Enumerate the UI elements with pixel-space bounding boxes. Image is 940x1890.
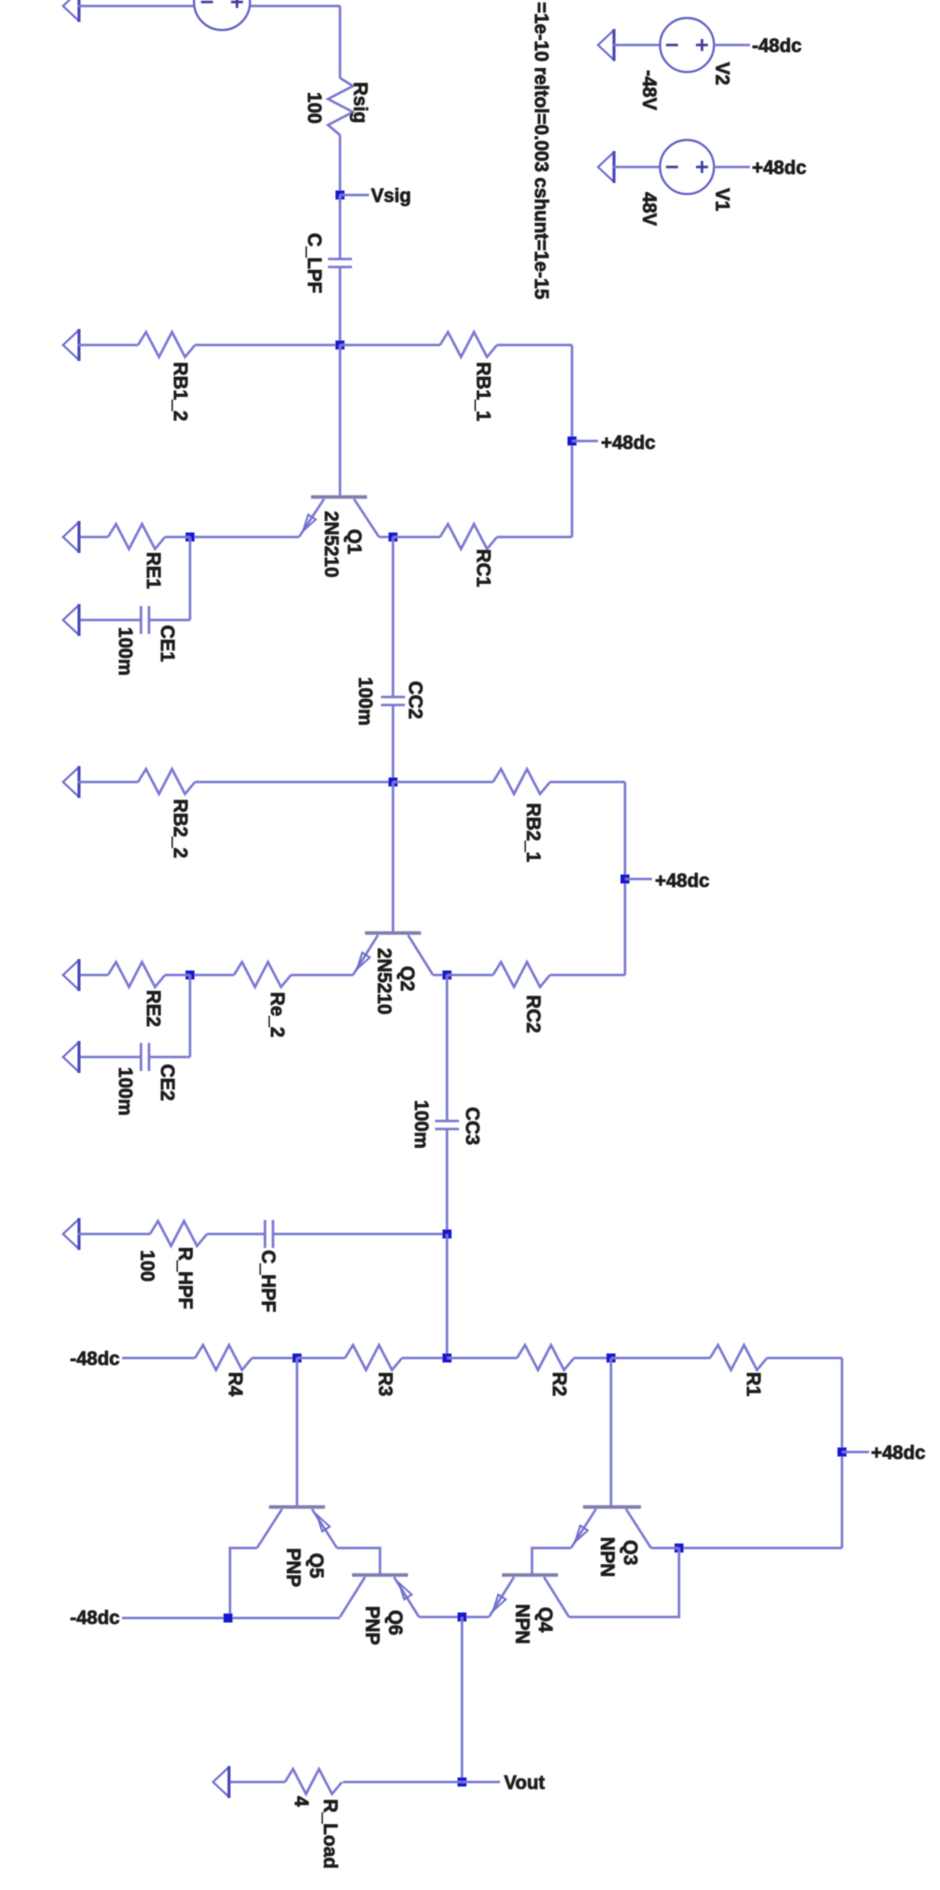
- node Vout: [458, 1778, 467, 1787]
- svg-text:Q3: Q3: [619, 1540, 640, 1565]
- svg-text:R_Load: R_Load: [319, 1799, 340, 1869]
- resistor R3: [345, 1345, 402, 1370]
- wire: [651, 1547, 679, 1550]
- wire: [190, 974, 234, 977]
- wire (Q1 base): [339, 345, 342, 497]
- svg-text:100m: 100m: [410, 1100, 431, 1149]
- wire: [446, 1129, 449, 1234]
- wire (Q2 base): [392, 782, 395, 933]
- svg-text:NPN: NPN: [511, 1604, 532, 1644]
- voltage source Vsrc (clipped at top): [194, 0, 250, 30]
- transistor Q3: [583, 1505, 641, 1508]
- wire: [339, 6, 342, 78]
- wire: [841, 1358, 844, 1548]
- wire: [195, 344, 340, 347]
- wire: [78, 619, 141, 622]
- wire: [297, 1357, 345, 1360]
- wire: [446, 975, 449, 1121]
- svg-text:C_HPF: C_HPF: [257, 1250, 278, 1312]
- ground (RE2): [63, 960, 79, 990]
- wire: [571, 345, 574, 537]
- wire: [273, 1233, 447, 1236]
- transistor Q4: [502, 1573, 558, 1576]
- svg-text:RB1_2: RB1_2: [169, 362, 190, 421]
- svg-text:Vsig: Vsig: [371, 186, 411, 207]
- wire: [679, 1547, 842, 1550]
- svg-text:48V: 48V: [638, 192, 659, 226]
- svg-text:R2: R2: [548, 1372, 569, 1396]
- wire: [392, 705, 395, 782]
- svg-text:RC2: RC2: [522, 995, 543, 1033]
- wire: [78, 974, 108, 977]
- wire (Q3 base): [610, 1358, 613, 1507]
- wire: [402, 1357, 447, 1360]
- wire: [122, 1357, 195, 1360]
- wire (Q3 emitter to Q4 base): [532, 1548, 571, 1575]
- wire: [393, 536, 440, 539]
- node Q5 collector rail: [224, 1614, 233, 1623]
- wire: [78, 536, 108, 539]
- svg-text:Q2: Q2: [396, 966, 417, 991]
- wire: [122, 1617, 340, 1620]
- wire: [207, 1233, 265, 1236]
- capacitor C_LPF: [328, 258, 352, 261]
- transistor Q1: [311, 495, 367, 498]
- svg-text:100: 100: [303, 92, 324, 124]
- wire: [613, 166, 660, 169]
- wire: [550, 974, 625, 977]
- svg-text:=1e-10 reltol=0.003 cshunt=1e-: =1e-10 reltol=0.003 cshunt=1e-15: [530, 2, 551, 300]
- svg-text:CC2: CC2: [404, 681, 425, 719]
- ground (RB2_2): [63, 767, 79, 797]
- capacitor C_HPF: [264, 1220, 267, 1248]
- wire: [78, 1056, 141, 1059]
- node +48dc rail 3: [838, 1448, 847, 1457]
- wire: [714, 166, 750, 169]
- svg-text:+48dc: +48dc: [871, 1443, 926, 1464]
- wire: [611, 1357, 710, 1360]
- svg-text:R_HPF: R_HPF: [174, 1247, 195, 1309]
- wire: [497, 536, 572, 539]
- resistor RB1_2: [138, 332, 195, 357]
- svg-text:+48dc: +48dc: [752, 158, 807, 179]
- svg-text:Q5: Q5: [305, 1553, 326, 1579]
- svg-text:-48V: -48V: [638, 70, 659, 110]
- wire: [78, 781, 138, 784]
- voltage source V2: [660, 18, 714, 72]
- node HPF: [443, 1230, 452, 1239]
- resistor RE2: [108, 962, 165, 987]
- svg-text:Vout: Vout: [504, 1773, 545, 1794]
- wire (Q4 collector): [569, 1548, 679, 1617]
- resistor Re_2: [234, 962, 291, 987]
- wire: [393, 781, 493, 784]
- node mid: [443, 1354, 452, 1363]
- transistor Q2: [365, 931, 421, 934]
- wire: [461, 1617, 464, 1782]
- transistor Q5: [269, 1505, 325, 1508]
- svg-text:4: 4: [290, 1796, 311, 1807]
- svg-text:RC1: RC1: [472, 549, 493, 587]
- capacitor CE1: [140, 606, 143, 634]
- wire (Q5 base): [296, 1358, 299, 1507]
- wire: [447, 1357, 517, 1360]
- voltage source V1: [660, 140, 714, 194]
- svg-text:R4: R4: [224, 1372, 245, 1397]
- resistor RC1: [440, 524, 497, 549]
- wire: [195, 781, 393, 784]
- node base1: [336, 341, 345, 350]
- wire: [339, 135, 342, 195]
- svg-text:CC3: CC3: [461, 1107, 482, 1145]
- wire: [340, 344, 440, 347]
- svg-text:100m: 100m: [354, 677, 375, 726]
- resistor RB1_1: [440, 332, 497, 357]
- wire: [497, 344, 572, 347]
- svg-text:RE2: RE2: [142, 990, 163, 1027]
- svg-text:R3: R3: [374, 1372, 395, 1396]
- svg-text:RB2_1: RB2_1: [522, 803, 543, 863]
- resistor R1: [710, 1345, 767, 1370]
- node B5: [293, 1354, 302, 1363]
- svg-text:100: 100: [136, 1250, 157, 1282]
- capacitor CE2: [140, 1043, 143, 1071]
- resistor R2: [517, 1345, 574, 1370]
- wire: [714, 44, 750, 47]
- node +48dc rail 1: [568, 437, 577, 446]
- wire (Q2 emitter): [291, 974, 353, 977]
- svg-text:CE2: CE2: [156, 1064, 177, 1101]
- wire: [189, 975, 192, 1057]
- svg-text:C_LPF: C_LPF: [303, 233, 324, 293]
- ground (signal source return): [63, 0, 79, 21]
- ground (V1): [598, 152, 614, 182]
- node C2: [443, 971, 452, 980]
- wire: [550, 781, 625, 784]
- wire (Q6 emitter): [419, 1616, 462, 1619]
- ground (CE2): [63, 1042, 79, 1072]
- wire: [624, 782, 627, 975]
- wire: [250, 5, 340, 8]
- resistor RB2_2: [138, 769, 195, 794]
- wire (Q5 emitter to Q6 base): [337, 1548, 380, 1575]
- node base2: [389, 778, 398, 787]
- node B3: [607, 1354, 616, 1363]
- node Vout junction: [458, 1613, 467, 1622]
- svg-text:100m: 100m: [114, 627, 135, 676]
- svg-text:R1: R1: [742, 1372, 763, 1397]
- wire: [392, 537, 395, 697]
- resistor R4: [195, 1345, 252, 1370]
- svg-text:+48dc: +48dc: [601, 433, 656, 454]
- svg-text:Q6: Q6: [384, 1610, 405, 1635]
- resistor RC2: [493, 962, 550, 987]
- wire: [767, 1357, 842, 1360]
- wire: [339, 267, 342, 345]
- wire: [339, 195, 342, 259]
- svg-text:RE1: RE1: [142, 552, 163, 589]
- resistor RE1: [108, 524, 165, 549]
- ground (R_Load): [213, 1767, 229, 1797]
- capacitor CC2: [381, 696, 405, 699]
- wire: [228, 1781, 285, 1784]
- svg-text:CE1: CE1: [156, 625, 177, 662]
- wire (Q5 collector): [230, 1548, 257, 1618]
- resistor R_Load: [285, 1769, 342, 1794]
- svg-text:2N5210: 2N5210: [320, 511, 341, 578]
- svg-text:RB2_2: RB2_2: [169, 799, 190, 858]
- resistor Rsig: [328, 78, 353, 135]
- ground (RB1_2): [63, 330, 79, 360]
- svg-text:Re_2: Re_2: [266, 992, 287, 1037]
- svg-text:+48dc: +48dc: [655, 871, 710, 892]
- svg-text:-48dc: -48dc: [70, 1608, 120, 1629]
- resistor RB2_1: [493, 769, 550, 794]
- ground (CE1): [63, 605, 79, 635]
- transistor Q6: [352, 1573, 408, 1576]
- wire: [189, 537, 192, 620]
- node C3: [675, 1544, 684, 1553]
- node +48dc rail 2: [621, 875, 630, 884]
- svg-text:V2: V2: [711, 62, 732, 85]
- wire: [252, 1357, 297, 1360]
- wire: [78, 1233, 150, 1236]
- wire: [149, 1056, 190, 1059]
- svg-text:Rsig: Rsig: [349, 82, 370, 123]
- svg-text:2N5210: 2N5210: [373, 948, 394, 1015]
- ground (RE1): [63, 522, 79, 552]
- capacitor CC3: [435, 1120, 459, 1123]
- node Vsig: [336, 191, 345, 200]
- node C1: [389, 533, 398, 542]
- wire: [613, 44, 660, 47]
- ground (R_HPF): [63, 1219, 79, 1249]
- svg-text:PNP: PNP: [361, 1606, 382, 1645]
- svg-text:V1: V1: [711, 188, 732, 212]
- resistor R_HPF: [150, 1221, 207, 1246]
- wire: [149, 619, 190, 622]
- wire: [78, 344, 138, 347]
- svg-text:-48dc: -48dc: [752, 36, 802, 57]
- ground (V2): [598, 30, 614, 60]
- wire: [574, 1357, 611, 1360]
- wire: [446, 1234, 449, 1358]
- wire: [78, 5, 195, 8]
- svg-text:Q4: Q4: [534, 1607, 555, 1633]
- node E1: [186, 533, 195, 542]
- svg-text:-48dc: -48dc: [70, 1349, 120, 1370]
- node E2: [186, 971, 195, 980]
- wire (Q1 emitter): [190, 536, 299, 539]
- svg-text:100m: 100m: [114, 1067, 135, 1116]
- svg-text:RB1_1: RB1_1: [472, 362, 493, 422]
- wire (Q4 emitter): [462, 1616, 489, 1619]
- svg-text:PNP: PNP: [282, 1548, 303, 1587]
- svg-text:Q1: Q1: [343, 529, 364, 555]
- svg-text:NPN: NPN: [596, 1537, 617, 1577]
- wire: [447, 974, 493, 977]
- wire: [343, 1781, 462, 1784]
